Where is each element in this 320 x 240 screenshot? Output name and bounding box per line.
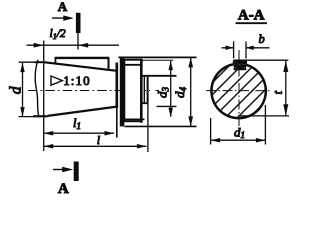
- arrow d bottom: [20, 107, 25, 117]
- extension line d bottom: [19, 116, 48, 118]
- cone top edge: [44, 62, 117, 71]
- section cut bar bottom: [74, 162, 79, 182]
- key cross hatch: [226, 57, 253, 72]
- svg-text:t: t: [271, 90, 285, 94]
- section circle outline: [211, 64, 265, 118]
- thread top edge + d3 extension: [141, 75, 176, 77]
- svg-text:d1: d1: [234, 125, 245, 141]
- dimension l: [44, 145, 147, 147]
- d3 extension top (nut top): [141, 59, 173, 61]
- break line: [35, 60, 39, 118]
- nut body: [124, 60, 141, 121]
- svg-text:l: l: [97, 133, 101, 147]
- section centerline vertical: [238, 50, 240, 131]
- d4 extension top (washer top): [119, 56, 197, 58]
- taper symbol: [51, 76, 62, 85]
- thread end face: [147, 76, 149, 103]
- dimension d line: [22, 63, 24, 116]
- keyway right side: [245, 60, 247, 65]
- svg-text:b: b: [259, 32, 265, 46]
- dimension t: [285, 61, 287, 116]
- centerline main view: [28, 90, 159, 92]
- thread bottom edge: [141, 102, 148, 104]
- svg-text:d4: d4: [172, 87, 188, 99]
- shaft body top edge: [35, 61, 44, 63]
- keyway left side: [233, 60, 235, 64]
- nut chamfer bottom: [124, 118, 144, 120]
- nut right edge thick: [140, 59, 143, 123]
- extension line d top: [19, 61, 39, 63]
- shaft body bottom edge: [33, 115, 48, 117]
- d4 extension bottom (washer bottom): [125, 125, 197, 127]
- dimension b: [222, 47, 270, 49]
- arrow d top: [20, 63, 25, 73]
- washer: [120, 57, 125, 127]
- key top / t extension line: [234, 59, 289, 61]
- section arrow top: [52, 17, 71, 19]
- hatching shaft section: [172, 43, 294, 165]
- dimension d4 line: [190, 57, 192, 126]
- svg-text:A: A: [58, 0, 68, 14]
- l extension line right: [147, 103, 149, 152]
- section arrow bottom: [53, 169, 68, 171]
- nut chamfer top: [124, 64, 141, 66]
- key right edge: [108, 57, 110, 70]
- cone end face: [116, 63, 119, 109]
- dimension l1/2: [27, 44, 120, 46]
- left extension line for l1/2, l1, l: [43, 41, 45, 152]
- key left edge: [54, 57, 56, 64]
- cone bottom edge: [48, 107, 117, 116]
- l1 extension line right: [116, 108, 118, 137]
- thread chamfer line: [143, 76, 145, 103]
- svg-text:l1/2: l1/2: [50, 28, 66, 41]
- dimension l1: [44, 132, 114, 134]
- svg-text:d3: d3: [155, 87, 171, 99]
- svg-text:A-A: A-A: [238, 8, 265, 24]
- dimension d3 line: [170, 61, 172, 117]
- dimension d1: [210, 118, 212, 145]
- svg-text:A: A: [58, 181, 69, 195]
- section line extension below top bar: [77, 33, 79, 50]
- keyway bottom: [234, 68, 247, 70]
- key top edge: [55, 57, 108, 59]
- svg-text:l1: l1: [73, 116, 81, 131]
- svg-text:d: d: [7, 86, 24, 94]
- section centerline horizontal: [206, 90, 271, 92]
- d3 lower extension line: [157, 105, 177, 107]
- svg-text:1:10: 1:10: [63, 73, 91, 88]
- section cut bar top: [76, 13, 81, 33]
